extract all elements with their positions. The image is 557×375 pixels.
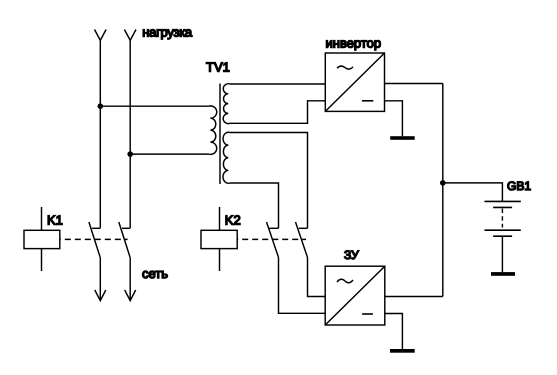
wire contact K2.1 to charger DC input — [279, 257, 326, 313]
node junction dot on DC bus — [440, 180, 446, 186]
wire K1 coil top lead — [41, 207, 43, 230]
svg-text:инвертор: инвертор — [326, 36, 382, 51]
transformer TV1 secondary winding (upper) — [223, 84, 230, 124]
svg-text:GB1: GB1 — [507, 179, 531, 193]
ground (charger) — [390, 349, 415, 353]
terminal arrow (load line L2 top fork) — [124, 30, 136, 41]
wire K2 coil bottom lead — [219, 249, 221, 271]
relay coil K1 — [24, 230, 60, 248]
battery GB1 cell 1 long plate — [485, 200, 521, 202]
contact K2.2 fixed tick — [299, 227, 308, 229]
svg-text:нагрузка: нагрузка — [142, 25, 193, 40]
terminal arrow (load line L1 top fork) — [95, 30, 107, 41]
converter block U2 (ЗУ charger) — [325, 266, 385, 325]
wire K1 coil bottom lead — [41, 249, 43, 271]
wire DC bus to battery — [443, 183, 503, 202]
ground (inverter) — [390, 136, 415, 140]
wire TV1 upper secondary bottom — [230, 101, 325, 124]
svg-text:TV1: TV1 — [206, 60, 230, 75]
U1 DC symbol - — [362, 100, 373, 102]
contact K1.2 fixed tick — [122, 227, 130, 229]
wire TV1 upper secondary top to inverter input — [230, 83, 325, 85]
contact K1.2 blade — [119, 222, 130, 258]
terminal arrow (mains line L1 bottom) — [95, 290, 106, 301]
wire charger to ground — [385, 314, 402, 350]
battery GB1 cell 1 short plate — [493, 206, 512, 208]
wire L2 to TV1 primary bottom — [130, 153, 208, 155]
contact K1.1 blade — [89, 222, 100, 258]
wire L1 lower vertical — [99, 258, 101, 301]
wire K2 coil top lead — [219, 207, 221, 230]
svg-text:K1: K1 — [47, 213, 63, 228]
contact K2.1 fixed tick — [269, 227, 278, 229]
K1 mechanical link (dashed) — [60, 238, 128, 240]
wire battery to ground — [501, 236, 503, 272]
wire L2 upper vertical — [129, 40, 131, 228]
converter block U1 (инвертор) — [325, 53, 384, 111]
battery GB1 dashed middle link — [501, 209, 503, 228]
wire TV1 lower secondary bottom to contact K2.1 — [230, 183, 279, 228]
battery GB1 cell 2 short plate — [493, 235, 512, 237]
svg-text:K2: K2 — [225, 213, 241, 228]
wire TV1 lower secondary top to contact K2.2 — [230, 133, 308, 229]
U2 DC symbol - — [362, 313, 373, 315]
contact K1.1 fixed tick — [92, 227, 100, 229]
battery GB1 cell 2 long plate — [485, 229, 521, 231]
wire L2 lower vertical — [129, 258, 131, 301]
svg-text:ЗУ: ЗУ — [344, 248, 359, 262]
wire L1 upper vertical — [99, 40, 101, 228]
svg-text:сеть: сеть — [142, 266, 168, 281]
ground (battery) — [491, 272, 515, 276]
transformer TV1 secondary winding (lower) — [223, 132, 230, 183]
U2 diagonal — [325, 266, 385, 325]
wire DC bus vertical — [442, 84, 444, 297]
U2 AC symbol ~ — [337, 279, 353, 283]
wire inverter output to DC bus — [385, 83, 443, 85]
transformer TV1 primary winding — [209, 106, 217, 155]
K2 mechanical link (dashed) — [237, 238, 306, 240]
node junction dot on L1 — [98, 103, 104, 109]
U1 diagonal — [325, 53, 384, 111]
contact K2.1 blade — [267, 222, 279, 257]
wire inverter to ground — [385, 101, 403, 136]
wire contact K2.2 to charger AC input — [308, 257, 326, 296]
relay coil K2 — [201, 230, 237, 248]
terminal arrow (mains line L2 bottom) — [125, 290, 136, 301]
U1 AC symbol ~ — [337, 66, 353, 69]
node junction dot on L2 — [127, 151, 133, 157]
wire charger output to DC bus — [385, 296, 443, 298]
wire L1 to TV1 primary top — [100, 105, 208, 107]
contact K2.2 blade — [296, 222, 308, 257]
transformer TV1 core — [219, 84, 221, 185]
